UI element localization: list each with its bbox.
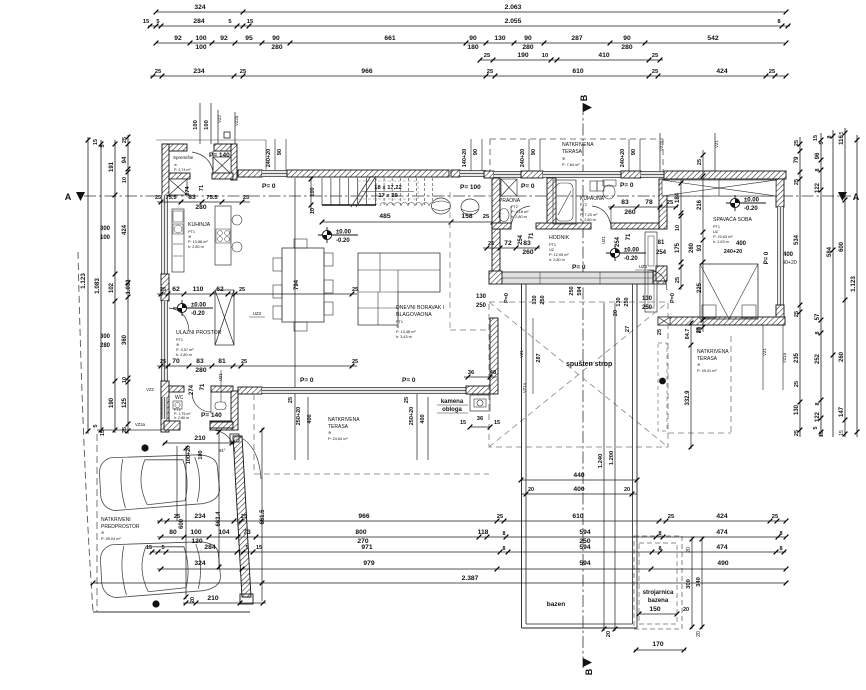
top dim row 4 ticks bbox=[478, 58, 663, 63]
svg-text:84.7: 84.7 bbox=[685, 329, 691, 340]
svg-text:B: B bbox=[579, 94, 589, 101]
svg-text:661: 661 bbox=[384, 35, 395, 42]
svg-text:280: 280 bbox=[195, 204, 206, 211]
svg-text:25: 25 bbox=[241, 514, 248, 520]
svg-text:10: 10 bbox=[542, 53, 548, 59]
bottom dim row 2 ticks bbox=[159, 535, 789, 540]
sink kupaona bbox=[590, 181, 597, 191]
svg-text:15: 15 bbox=[839, 430, 845, 436]
svg-text:360: 360 bbox=[122, 334, 128, 345]
toilet kupaona bbox=[603, 180, 616, 186]
svg-text:979: 979 bbox=[363, 560, 374, 567]
svg-text:P: 22,63 m²: P: 22,63 m² bbox=[713, 235, 733, 239]
bed bbox=[700, 264, 758, 319]
svg-text:P= 0: P= 0 bbox=[300, 377, 314, 384]
window south living bbox=[262, 388, 466, 394]
svg-text:25: 25 bbox=[487, 69, 494, 75]
entry closet UZ2 x-box bbox=[215, 290, 234, 345]
carport top edge line bbox=[97, 429, 161, 431]
carport slanted wall bbox=[233, 436, 251, 597]
survey dot upper bbox=[141, 444, 148, 451]
svg-text:191: 191 bbox=[109, 161, 115, 172]
svg-text:25: 25 bbox=[488, 241, 494, 247]
svg-text:80: 80 bbox=[169, 529, 177, 536]
svg-text:83: 83 bbox=[523, 240, 531, 247]
svg-text:36: 36 bbox=[468, 370, 475, 376]
carport dashed left edge bbox=[96, 434, 98, 612]
closet row end column right bbox=[653, 271, 666, 284]
bottom dim row 3 ticks bbox=[150, 550, 787, 555]
wall praona north seg1 bbox=[484, 171, 494, 178]
svg-text:h: 2,80 m: h: 2,80 m bbox=[580, 218, 596, 222]
svg-text:130: 130 bbox=[616, 297, 622, 306]
wall storage top left bbox=[162, 144, 187, 151]
dining chairs right bbox=[324, 253, 333, 266]
svg-text:P: 2,74 m²: P: 2,74 m² bbox=[174, 168, 191, 172]
entry dim row line bbox=[157, 365, 357, 367]
terasa sw dashed bottom bbox=[254, 473, 489, 475]
svg-text:25: 25 bbox=[794, 311, 800, 317]
svg-text:15: 15 bbox=[93, 139, 99, 145]
svg-text:122: 122 bbox=[815, 411, 821, 422]
svg-text:130: 130 bbox=[494, 35, 505, 42]
bedroom side closet bbox=[645, 232, 657, 312]
uz1 stem wc bbox=[220, 370, 222, 402]
marker lines VZ1 bottom bbox=[762, 325, 764, 390]
bedroom dim chain 2 bbox=[702, 150, 704, 332]
svg-text:25: 25 bbox=[497, 514, 504, 520]
wall bedroom east upper bbox=[776, 179, 784, 207]
pool bottom outer bbox=[522, 627, 638, 629]
window north stairs-left bbox=[262, 171, 287, 177]
svg-text:bazen: bazen bbox=[547, 601, 565, 608]
column storage x-box bbox=[213, 157, 231, 174]
car 1 bbox=[99, 452, 221, 512]
svg-text:P= 0: P= 0 bbox=[620, 182, 634, 189]
svg-text:25: 25 bbox=[794, 430, 800, 436]
svg-text:70: 70 bbox=[172, 358, 180, 365]
svg-text:15: 15 bbox=[256, 545, 262, 551]
svg-text:strojarnica: strojarnica bbox=[643, 590, 674, 596]
window marker small square bbox=[224, 132, 230, 138]
svg-text:72: 72 bbox=[504, 240, 512, 247]
svg-text:25: 25 bbox=[675, 277, 681, 283]
svg-text:90: 90 bbox=[623, 35, 631, 42]
bottom dim row 5 ticks bbox=[91, 581, 789, 586]
door entry arc bbox=[169, 308, 189, 330]
svg-text:75.5: 75.5 bbox=[206, 195, 218, 201]
right dim V6 ticks bbox=[819, 138, 824, 435]
wall praona south seg bbox=[492, 223, 511, 229]
dining table bbox=[282, 248, 324, 322]
svg-text:254: 254 bbox=[656, 250, 667, 256]
top dim row 4 line bbox=[480, 59, 663, 61]
svg-text:584: 584 bbox=[827, 246, 833, 257]
wall wc bottom right bbox=[210, 421, 232, 430]
svg-text:≋: ≋ bbox=[174, 163, 177, 167]
svg-text:VZ2a: VZ2a bbox=[135, 422, 146, 427]
sofa outline bbox=[358, 253, 440, 325]
svg-text:20: 20 bbox=[190, 597, 196, 603]
svg-text:18 x 17,22: 18 x 17,22 bbox=[374, 185, 401, 191]
svg-text:h: 2,63 m: h: 2,63 m bbox=[713, 240, 729, 244]
stairs risers solid bbox=[321, 178, 323, 205]
entry dim row ticks bbox=[159, 364, 355, 369]
gate post bbox=[230, 434, 239, 442]
svg-text:96: 96 bbox=[815, 152, 821, 159]
window wc west bbox=[162, 397, 167, 419]
svg-text:250: 250 bbox=[476, 303, 487, 309]
svg-text:424: 424 bbox=[716, 68, 727, 75]
svg-text:25: 25 bbox=[668, 514, 675, 520]
top dim row 2 ticks bbox=[148, 24, 791, 29]
dim 794 line bbox=[294, 178, 296, 394]
survey dot lower bbox=[152, 600, 159, 607]
svg-text:h: 3,43 m: h: 3,43 m bbox=[396, 335, 412, 339]
svg-text:100: 100 bbox=[195, 35, 206, 42]
svg-text:P: 49,31 m²: P: 49,31 m² bbox=[697, 369, 717, 373]
spusten strop diagonal 2 bbox=[489, 302, 668, 447]
right dim V9 ticks bbox=[855, 138, 860, 435]
svg-text:260: 260 bbox=[522, 249, 533, 256]
svg-text:PT2: PT2 bbox=[511, 205, 518, 209]
svg-text:324: 324 bbox=[194, 560, 205, 567]
svg-text:±0.00: ±0.00 bbox=[744, 198, 760, 204]
pool wall left inner bbox=[525, 284, 527, 624]
svg-text:P= 140: P= 140 bbox=[201, 412, 222, 419]
svg-text:36: 36 bbox=[477, 416, 484, 422]
svg-text:VZ1: VZ1 bbox=[762, 347, 767, 355]
svg-text:794: 794 bbox=[294, 279, 300, 290]
pool dim 400 bbox=[521, 493, 637, 495]
svg-text:8: 8 bbox=[658, 546, 661, 552]
svg-text:250: 250 bbox=[624, 297, 630, 306]
svg-text:KUHINJA: KUHINJA bbox=[188, 222, 211, 228]
svg-text:663.4: 663.4 bbox=[216, 511, 222, 527]
svg-text:VZ2: VZ2 bbox=[146, 387, 154, 392]
ne terasa dashed rect bbox=[490, 139, 663, 171]
svg-text:73: 73 bbox=[243, 529, 251, 536]
window bedroom east bbox=[778, 207, 784, 305]
svg-text:118: 118 bbox=[478, 529, 489, 536]
left dim V2 ticks bbox=[99, 142, 104, 433]
svg-text:10: 10 bbox=[122, 177, 128, 183]
svg-text:NATKRIVENA: NATKRIVENA bbox=[697, 349, 729, 355]
svg-text:100: 100 bbox=[195, 44, 206, 51]
svg-text:TERASA: TERASA bbox=[697, 356, 718, 362]
svg-text:130: 130 bbox=[532, 295, 538, 304]
svg-text:284: 284 bbox=[193, 18, 204, 25]
svg-text:25: 25 bbox=[652, 53, 659, 59]
svg-text:1.083: 1.083 bbox=[94, 278, 101, 294]
dim hodnik row bbox=[483, 247, 540, 249]
kitchen counter bbox=[172, 209, 184, 272]
svg-text:125: 125 bbox=[122, 397, 128, 408]
kamena obloga column bbox=[470, 395, 490, 411]
svg-text:90: 90 bbox=[277, 149, 283, 155]
left dim V3 line bbox=[114, 140, 116, 433]
wall south-east corner column bbox=[466, 386, 494, 394]
svg-text:800: 800 bbox=[355, 529, 366, 536]
dim kupaona 83 260 78 bbox=[608, 206, 678, 208]
wall kupaona south seg bbox=[536, 223, 591, 229]
svg-text:971: 971 bbox=[361, 544, 372, 551]
closet row end column left bbox=[489, 271, 502, 284]
strojarnica dashed inner bbox=[639, 543, 677, 624]
svg-text:5: 5 bbox=[839, 131, 845, 134]
svg-text:100: 100 bbox=[100, 235, 111, 241]
svg-text:2.387: 2.387 bbox=[462, 575, 479, 582]
right dim V5 ticks bbox=[798, 142, 803, 433]
svg-text:≋: ≋ bbox=[176, 343, 179, 347]
svg-text:79: 79 bbox=[794, 156, 800, 163]
wall terrace west bbox=[490, 318, 498, 394]
level marker hodnik bbox=[606, 252, 646, 254]
svg-text:104: 104 bbox=[218, 529, 229, 536]
svg-text:280: 280 bbox=[522, 44, 533, 51]
svg-text:95: 95 bbox=[245, 35, 253, 42]
svg-text:424: 424 bbox=[122, 224, 128, 235]
svg-text:280: 280 bbox=[621, 44, 632, 51]
svg-text:UZ: UZ bbox=[713, 230, 719, 234]
svg-text:180: 180 bbox=[467, 44, 478, 51]
svg-text:UZ: UZ bbox=[549, 248, 555, 252]
svg-text:P: 13,48 m²: P: 13,48 m² bbox=[396, 330, 416, 334]
wall hodnik west stub bbox=[492, 229, 500, 272]
svg-text:250: 250 bbox=[540, 295, 546, 304]
window kupaona north 2 bbox=[641, 172, 664, 178]
svg-text:610: 610 bbox=[572, 68, 583, 75]
svg-text:594: 594 bbox=[579, 560, 590, 567]
bottom dim row 5 line bbox=[93, 582, 786, 584]
svg-text:≋: ≋ bbox=[396, 325, 399, 329]
svg-text:±0.00: ±0.00 bbox=[624, 248, 640, 254]
svg-text:A: A bbox=[853, 192, 860, 202]
window kupaona north bbox=[543, 172, 621, 178]
wall storage bottom seg2 bbox=[212, 173, 233, 179]
svg-text:NATKRIVENI: NATKRIVENI bbox=[101, 517, 131, 523]
svg-text:15: 15 bbox=[143, 19, 150, 25]
kitchen dim row line bbox=[157, 293, 357, 295]
right dim V6 line bbox=[820, 133, 822, 437]
svg-text:WC: WC bbox=[175, 395, 184, 401]
svg-text:UZ2: UZ2 bbox=[639, 264, 648, 269]
wall wc top seg1 bbox=[169, 386, 184, 392]
svg-text:P=0: P=0 bbox=[670, 293, 676, 303]
pool wall right inner bbox=[632, 284, 634, 624]
terasa se dashed boundary bbox=[730, 336, 732, 433]
svg-text:490: 490 bbox=[717, 560, 728, 567]
top dim row 5 line bbox=[150, 75, 786, 77]
wall wc top seg2 bbox=[211, 386, 233, 392]
strojarnica dim 150 bbox=[639, 613, 677, 615]
svg-text:147: 147 bbox=[839, 406, 845, 417]
svg-text:210: 210 bbox=[207, 595, 218, 602]
kitchen stove bbox=[216, 229, 230, 243]
svg-text:542: 542 bbox=[707, 35, 718, 42]
svg-text:P: 7,84 m²: P: 7,84 m² bbox=[562, 163, 580, 167]
svg-text:25: 25 bbox=[160, 359, 166, 365]
wall bedroom south bbox=[658, 317, 785, 325]
lot boundary bottom bbox=[93, 611, 250, 613]
svg-text:240+20: 240+20 bbox=[520, 149, 526, 168]
svg-text:25: 25 bbox=[155, 69, 162, 75]
svg-text:235: 235 bbox=[794, 352, 800, 363]
svg-text:90: 90 bbox=[524, 35, 532, 42]
svg-text:≋: ≋ bbox=[188, 235, 191, 239]
svg-text:300: 300 bbox=[686, 579, 692, 589]
svg-text:P= 100: P= 100 bbox=[460, 184, 481, 191]
carport vertical dim 661.5 bbox=[261, 428, 263, 601]
svg-text:274: 274 bbox=[189, 384, 195, 395]
svg-text:25: 25 bbox=[241, 359, 247, 365]
svg-text:P: 24,54 m²: P: 24,54 m² bbox=[328, 437, 348, 441]
wall praona-kupaona divider bbox=[547, 178, 556, 227]
right dim V9 line bbox=[856, 135, 858, 437]
dim rot 84.7 332.9 bbox=[690, 321, 692, 449]
svg-text:25: 25 bbox=[243, 195, 249, 201]
level marker living bbox=[318, 234, 358, 236]
svg-text:kamena: kamena bbox=[441, 399, 464, 405]
svg-text:≋: ≋ bbox=[562, 157, 565, 161]
svg-text:90: 90 bbox=[473, 149, 479, 155]
svg-text:100: 100 bbox=[198, 450, 204, 459]
svg-text:15: 15 bbox=[460, 420, 466, 426]
wall north band over stairs bbox=[287, 170, 449, 177]
pool dim 440 bbox=[521, 479, 637, 481]
svg-text:P: 55,04 m²: P: 55,04 m² bbox=[101, 537, 121, 541]
svg-text:ULAZNI PROSTOR: ULAZNI PROSTOR bbox=[176, 330, 222, 336]
svg-text:25: 25 bbox=[239, 287, 245, 293]
svg-text:obloga: obloga bbox=[442, 407, 462, 413]
storage dim row ticks bbox=[159, 200, 245, 205]
svg-text:610: 610 bbox=[572, 513, 583, 520]
svg-text:62: 62 bbox=[216, 286, 224, 293]
svg-text:25: 25 bbox=[240, 69, 247, 75]
wall praona-kupaona north seg2 bbox=[521, 171, 543, 178]
svg-text:1.240: 1.240 bbox=[598, 454, 604, 469]
svg-text:287: 287 bbox=[571, 35, 582, 42]
spusten strop dashed rect bbox=[489, 302, 668, 447]
wall north pier 1 bbox=[238, 170, 262, 177]
svg-text:1.200: 1.200 bbox=[609, 451, 615, 466]
svg-text:PT1: PT1 bbox=[176, 338, 183, 342]
door praona arc bbox=[511, 206, 530, 226]
svg-text:±0.00: ±0.00 bbox=[336, 230, 352, 236]
svg-text:PT1: PT1 bbox=[549, 243, 556, 247]
strojarnica dim rot 300 340 bbox=[691, 537, 693, 629]
svg-text:240+20: 240+20 bbox=[724, 249, 743, 255]
dim 36 48 column bbox=[464, 376, 497, 378]
strojarnica dim 170 bbox=[634, 649, 686, 651]
svg-text:254: 254 bbox=[615, 236, 621, 247]
svg-text:25: 25 bbox=[652, 69, 659, 75]
wall bedroom north bbox=[664, 171, 786, 179]
svg-text:20: 20 bbox=[696, 631, 702, 637]
svg-text:280: 280 bbox=[271, 44, 282, 51]
top dim row 1 line bbox=[156, 11, 786, 13]
gate arc bbox=[214, 430, 235, 452]
svg-text:PT1: PT1 bbox=[188, 230, 195, 234]
svg-text:8: 8 bbox=[502, 546, 505, 552]
svg-text:-0.20: -0.20 bbox=[336, 238, 350, 244]
bedroom closet top x-row bbox=[662, 180, 776, 196]
svg-text:20: 20 bbox=[683, 607, 689, 613]
kitchen dim row ticks bbox=[159, 292, 355, 297]
svg-text:78: 78 bbox=[645, 199, 653, 206]
svg-text:440: 440 bbox=[573, 472, 584, 479]
svg-text:216: 216 bbox=[697, 199, 703, 210]
svg-text:130: 130 bbox=[642, 296, 653, 302]
carport vertical dim 600 bbox=[185, 446, 187, 599]
svg-text:100: 100 bbox=[204, 120, 210, 130]
svg-text:25: 25 bbox=[696, 327, 702, 333]
svg-text:PRAONA: PRAONA bbox=[499, 198, 521, 204]
left dim V4 ticks bbox=[126, 135, 131, 434]
svg-text:250+20: 250+20 bbox=[296, 407, 302, 426]
svg-text:175: 175 bbox=[675, 242, 681, 253]
svg-text:81: 81 bbox=[658, 240, 665, 246]
svg-text:P: 7,20 m²: P: 7,20 m² bbox=[580, 213, 598, 217]
svg-text:25: 25 bbox=[769, 69, 776, 75]
svg-text:1.123: 1.123 bbox=[80, 273, 87, 289]
right dim V8 ticks bbox=[843, 131, 848, 437]
kitchen circles bbox=[232, 215, 242, 225]
svg-text:83: 83 bbox=[196, 358, 204, 365]
svg-text:102: 102 bbox=[109, 282, 115, 293]
section marker B bottom bbox=[583, 658, 592, 667]
toilet wc bbox=[215, 402, 226, 410]
svg-text:280: 280 bbox=[100, 343, 111, 349]
wall bedroom door jamb bbox=[656, 266, 667, 281]
svg-text:KUPAONA: KUPAONA bbox=[580, 196, 605, 202]
bathtub kupaona bbox=[553, 180, 576, 224]
svg-text:h: 2,80 m: h: 2,80 m bbox=[176, 353, 192, 357]
wall storage right corner bbox=[231, 144, 237, 180]
level marker bedroom bbox=[726, 202, 766, 204]
svg-text:25: 25 bbox=[404, 397, 410, 403]
svg-text:485: 485 bbox=[379, 213, 390, 220]
svg-text:93: 93 bbox=[697, 244, 703, 251]
carport wall bottom box bbox=[240, 594, 253, 604]
svg-text:P= 0: P= 0 bbox=[521, 183, 535, 190]
sofa cushion lines bbox=[379, 253, 381, 292]
svg-text:287: 287 bbox=[536, 353, 542, 362]
washer praona bbox=[501, 179, 517, 196]
svg-text:5: 5 bbox=[245, 545, 248, 551]
wall south wc-corner bbox=[238, 387, 262, 394]
svg-text:B: B bbox=[584, 668, 594, 675]
marker line VZ1 top bbox=[714, 133, 716, 171]
svg-text:8: 8 bbox=[815, 331, 821, 334]
svg-text:252: 252 bbox=[815, 353, 821, 364]
svg-text:25: 25 bbox=[160, 287, 166, 293]
svg-text:260: 260 bbox=[839, 351, 845, 362]
svg-text:NATKRIVENA: NATKRIVENA bbox=[328, 417, 360, 423]
svg-text:110: 110 bbox=[193, 286, 204, 293]
svg-text:HODNIK: HODNIK bbox=[549, 235, 570, 241]
svg-text:20: 20 bbox=[613, 310, 619, 316]
svg-text:424: 424 bbox=[716, 513, 727, 520]
left dim V3 ticks bbox=[113, 142, 118, 433]
svg-text:BLAGOVAONA: BLAGOVAONA bbox=[396, 312, 432, 318]
svg-text:661.5: 661.5 bbox=[260, 509, 266, 525]
svg-text:h: 2,80 m: h: 2,80 m bbox=[549, 258, 565, 262]
bedroom south wall x-box bbox=[658, 317, 670, 325]
svg-text:100: 100 bbox=[310, 187, 316, 196]
svg-text:966: 966 bbox=[358, 513, 369, 520]
stairs risers dashed bbox=[375, 178, 377, 205]
